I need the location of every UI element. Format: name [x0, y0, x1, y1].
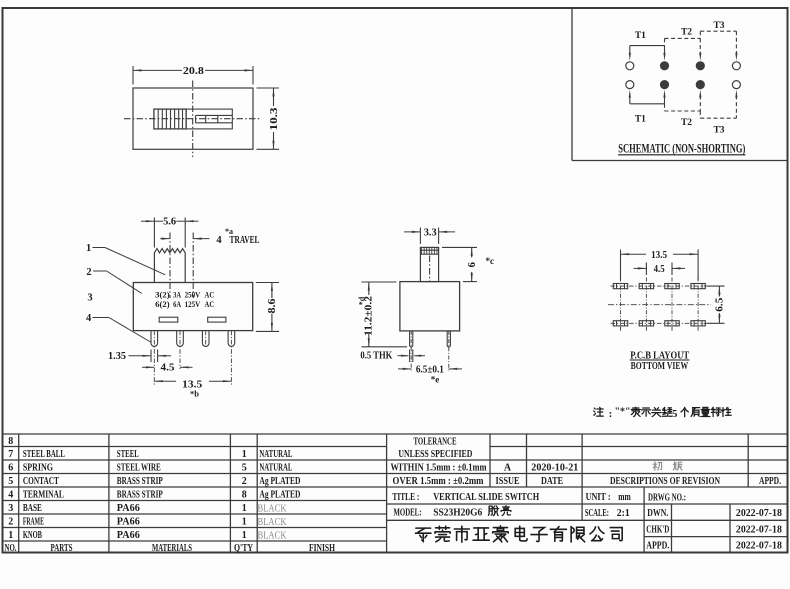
- svg-text:BRASS STRIP: BRASS STRIP: [117, 476, 163, 487]
- svg-text:T1: T1: [635, 115, 646, 125]
- svg-text:*b: *b: [190, 389, 199, 399]
- svg-text:MATERIALS: MATERIALS: [152, 543, 192, 554]
- tolerance block text: [391, 436, 488, 487]
- svg-text:CHK'D: CHK'D: [646, 524, 669, 535]
- pcb pad top row 4: [691, 284, 705, 289]
- svg-text:TITLE :: TITLE :: [392, 492, 419, 503]
- wire T2 top dashed: [665, 38, 702, 60]
- svg-text:BASE: BASE: [23, 503, 42, 514]
- svg-text:ISSUE: ISSUE: [496, 476, 520, 487]
- svg-text:250V: 250V: [185, 289, 201, 299]
- sign dates: [736, 508, 782, 552]
- svg-text:NO.: NO.: [5, 543, 17, 554]
- wire T1 bottom solid: [629, 90, 666, 104]
- front view body centerline: [192, 233, 194, 299]
- front view pin 2: [177, 331, 184, 347]
- svg-text:20.8: 20.8: [183, 66, 204, 77]
- svg-text:3: 3: [87, 292, 92, 303]
- svg-text:5: 5: [672, 409, 677, 420]
- svg-text:DATE: DATE: [541, 476, 563, 487]
- pcb pad bottom row 1: [613, 321, 627, 326]
- svg-text:BLACK: BLACK: [258, 504, 287, 515]
- svg-text:T1: T1: [635, 31, 646, 41]
- svg-text:10.3: 10.3: [269, 108, 280, 131]
- svg-text:DWN.: DWN.: [647, 508, 668, 519]
- svg-text:MODEL:: MODEL:: [394, 507, 422, 518]
- svg-text:6.5: 6.5: [715, 298, 726, 312]
- pcb pad top row 2: [639, 284, 653, 289]
- svg-text:1: 1: [242, 449, 247, 460]
- title row text: [392, 492, 686, 504]
- svg-text:2:1: 2:1: [617, 508, 630, 519]
- dimension 13.5 pin span: [154, 379, 231, 398]
- parts table row 5: [8, 476, 300, 487]
- svg-text:4: 4: [8, 490, 13, 501]
- svg-text:*e: *e: [431, 375, 440, 385]
- svg-text:OVER 1.5mm : ±0.2mm: OVER 1.5mm : ±0.2mm: [393, 476, 485, 487]
- svg-text:0.5 THK: 0.5 THK: [360, 350, 392, 361]
- svg-text:CONTACT: CONTACT: [23, 476, 59, 487]
- svg-text:3A: 3A: [173, 289, 182, 299]
- pcb layout title line 1: [630, 349, 690, 361]
- svg-text:5: 5: [242, 463, 247, 474]
- front view pin 3: [202, 331, 209, 347]
- pcb layout column centerlines: [621, 278, 699, 332]
- svg-text:SS23H20G6: SS23H20G6: [433, 507, 482, 518]
- parts table row 3: [8, 503, 287, 514]
- svg-text:"*": "*": [614, 407, 630, 418]
- svg-text:BOTTOM VIEW: BOTTOM VIEW: [631, 360, 689, 372]
- dimension 4 travel: [160, 227, 259, 246]
- svg-text:2020-10-21: 2020-10-21: [531, 463, 578, 474]
- svg-text:6: 6: [467, 262, 478, 267]
- svg-text:1: 1: [242, 517, 247, 528]
- svg-text:VERTICAL SLIDE SWITCH: VERTICAL SLIDE SWITCH: [433, 492, 539, 503]
- front view body outline: [133, 283, 252, 331]
- pcb pad bottom row 2: [639, 321, 653, 326]
- dimension 1.35 pin width: [108, 350, 171, 363]
- svg-text:13.5: 13.5: [651, 250, 667, 261]
- parts table row 4: [8, 490, 300, 501]
- svg-text:4.5: 4.5: [654, 264, 665, 275]
- dimension 6.5 pin spacing side: [398, 364, 462, 384]
- wire T1 top solid: [629, 46, 666, 61]
- callout number 4: [86, 313, 151, 342]
- svg-text:*d: *d: [358, 296, 367, 305]
- svg-text:1: 1: [86, 243, 91, 254]
- front view knob outline with serrated top: [154, 249, 185, 283]
- top view knob slider section: [186, 109, 232, 129]
- dimension 8.6 body height: [256, 283, 279, 332]
- svg-text:PA66: PA66: [117, 517, 140, 528]
- svg-text:BRASS STRIP: BRASS STRIP: [117, 490, 163, 501]
- dimension 13.5 pcb span: [621, 250, 699, 281]
- svg-text:SCALE:: SCALE:: [585, 508, 609, 519]
- svg-text:3.3: 3.3: [424, 227, 437, 238]
- schematic box border: [572, 8, 787, 161]
- svg-text:125V: 125V: [185, 299, 201, 309]
- front view slot right: [208, 317, 226, 322]
- top view body outline: [133, 88, 253, 149]
- svg-text::: :: [609, 408, 613, 420]
- wire T3 top dashed: [700, 31, 737, 61]
- wire T2 bottom dashed: [665, 90, 702, 111]
- svg-text:PA66: PA66: [117, 503, 140, 514]
- svg-text:TOLERANCE: TOLERANCE: [414, 436, 457, 447]
- svg-text:3(2): 3(2): [155, 289, 170, 299]
- company name text: [416, 526, 623, 542]
- svg-text:KNOB: KNOB: [23, 530, 42, 541]
- table grid vertical lines: [19, 434, 749, 553]
- svg-text:NATURAL: NATURAL: [259, 449, 292, 460]
- side view knob outline: [420, 247, 438, 281]
- svg-text:Ag PLATED: Ag PLATED: [259, 490, 300, 501]
- svg-text:T3: T3: [713, 21, 724, 31]
- parts table row 6: [8, 463, 292, 474]
- svg-text:BLACK: BLACK: [258, 517, 287, 528]
- parts table row 1: [8, 530, 287, 541]
- dimension 6 knob height: [442, 247, 494, 281]
- svg-text:DRWG NO.:: DRWG NO.:: [648, 493, 686, 504]
- parts table row 7: [8, 449, 292, 460]
- rating text line 2: [155, 299, 214, 309]
- dimension 11.2 overall height: [358, 282, 408, 347]
- top view horizontal centerline: [124, 118, 261, 120]
- svg-text:2: 2: [242, 476, 247, 487]
- pcb layout row centerlines: [608, 286, 711, 323]
- svg-text:UNIT :: UNIT :: [586, 492, 611, 503]
- dimension 20.8 top view width: [133, 66, 253, 85]
- svg-text:STEEL: STEEL: [117, 449, 139, 460]
- svg-text:DESCRIPTIONS OF REVISION: DESCRIPTIONS OF REVISION: [610, 476, 721, 487]
- svg-text:6: 6: [8, 463, 13, 474]
- parts table row 2: [8, 517, 287, 528]
- pcb pad bottom row 3: [665, 321, 679, 326]
- dimension 6.5 pcb row spacing: [708, 286, 726, 323]
- svg-text:Q'TY: Q'TY: [234, 543, 254, 554]
- rating text line 1: [155, 289, 214, 299]
- svg-text:UNLESS SPECIFIED: UNLESS SPECIFIED: [398, 449, 472, 460]
- dimension 4.5 pin pitch: [142, 363, 193, 374]
- svg-text:2022-07-18: 2022-07-18: [736, 541, 782, 552]
- svg-text:8.6: 8.6: [267, 299, 278, 314]
- dimension 10.3 top view height: [257, 88, 280, 149]
- side view pin left: [410, 331, 413, 347]
- svg-text:2022-07-18: 2022-07-18: [736, 508, 782, 519]
- svg-text:3: 3: [8, 503, 13, 514]
- svg-text:PARTS: PARTS: [51, 543, 73, 554]
- side view knob centerline: [429, 256, 431, 282]
- front view slot left: [159, 317, 178, 322]
- svg-text:5.6: 5.6: [163, 217, 176, 228]
- svg-text:PA66: PA66: [117, 530, 140, 541]
- front view pin 4: [228, 331, 235, 347]
- svg-text:AC: AC: [205, 289, 215, 299]
- svg-text:FRAME: FRAME: [23, 517, 44, 528]
- svg-text:6A: 6A: [173, 299, 182, 309]
- dimension 3.3 knob thickness: [404, 227, 455, 244]
- callout number 2: [86, 267, 142, 294]
- pcb pad bottom row 4: [691, 321, 705, 326]
- svg-text:6(2): 6(2): [155, 299, 170, 309]
- svg-text:4: 4: [86, 313, 92, 324]
- svg-text:8: 8: [8, 436, 13, 447]
- svg-text:4: 4: [216, 235, 222, 246]
- pcb pad top row 1: [613, 284, 627, 289]
- sign column labels: [646, 508, 669, 552]
- svg-text:7: 7: [8, 449, 13, 460]
- svg-text:1: 1: [242, 530, 247, 541]
- front view knob centerline: [169, 233, 171, 299]
- dimension 4.5 pcb pitch: [634, 263, 686, 276]
- schematic terminal circles row 1: [626, 62, 741, 70]
- note asterisk quality text: [594, 407, 731, 421]
- label 0.5 THK pin thickness: [360, 350, 425, 363]
- svg-text:Ag PLATED: Ag PLATED: [259, 476, 300, 487]
- top view knob serrated section: [154, 109, 186, 129]
- svg-text:STEEL BALL: STEEL BALL: [23, 449, 65, 460]
- parts table row 8: [8, 436, 13, 447]
- dimension 5.6 knob width: [141, 217, 199, 248]
- svg-text:WITHIN 1.5mm : ±0.1mm: WITHIN 1.5mm : ±0.1mm: [391, 463, 488, 474]
- schematic terminal circles row 2: [626, 81, 741, 89]
- wire T3 bottom dashed: [700, 90, 737, 119]
- svg-text:TERMINAL: TERMINAL: [23, 490, 64, 501]
- svg-text:APPD.: APPD.: [646, 541, 669, 552]
- svg-text:T2: T2: [681, 28, 692, 38]
- svg-text:T3: T3: [713, 126, 724, 136]
- svg-text:1.35: 1.35: [108, 351, 126, 362]
- svg-text:NATURAL: NATURAL: [259, 463, 292, 474]
- svg-text:2: 2: [8, 517, 13, 528]
- schematic title text: [618, 142, 746, 156]
- front view pin 1: [151, 331, 158, 347]
- side view body outline: [400, 282, 460, 331]
- side view pin right: [447, 331, 450, 347]
- callout number 1: [86, 243, 165, 275]
- svg-text:4.5: 4.5: [161, 363, 175, 374]
- svg-text:TRAVEL: TRAVEL: [230, 235, 260, 246]
- svg-text:SCHEMATIC (NON-SHORTING): SCHEMATIC (NON-SHORTING): [618, 142, 745, 156]
- svg-text:FINISH: FINISH: [309, 543, 335, 554]
- svg-text:2: 2: [86, 267, 91, 278]
- svg-text:1: 1: [242, 503, 247, 514]
- svg-text:A: A: [504, 463, 512, 474]
- svg-text:8: 8: [242, 490, 247, 501]
- svg-text:APPD.: APPD.: [759, 476, 781, 487]
- svg-text:T2: T2: [681, 118, 692, 128]
- svg-text:BLACK: BLACK: [258, 531, 287, 542]
- svg-text:SPRING: SPRING: [23, 463, 53, 474]
- model row text: [394, 506, 630, 519]
- parts table header row: [5, 543, 336, 554]
- svg-text:2022-07-18: 2022-07-18: [736, 524, 782, 535]
- svg-text:5: 5: [8, 476, 13, 487]
- top view vertical centerline: [192, 81, 194, 158]
- pcb pad top row 3: [665, 284, 679, 289]
- revision row text: [496, 463, 782, 488]
- svg-text:AC: AC: [205, 299, 215, 309]
- svg-text:mm: mm: [618, 492, 631, 503]
- revision entry chu ban text: [653, 462, 682, 470]
- svg-text:*c: *c: [486, 256, 495, 266]
- svg-text:1: 1: [8, 530, 13, 541]
- svg-text:STEEL WIRE: STEEL WIRE: [117, 463, 161, 474]
- table grid horizontal lines: [3, 434, 787, 541]
